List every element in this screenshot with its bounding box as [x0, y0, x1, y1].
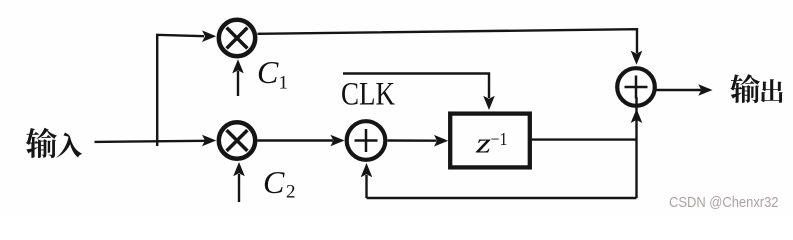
- svg-text:2: 2: [286, 182, 296, 203]
- svg-text:1: 1: [279, 73, 289, 94]
- svg-text:CLK: CLK: [341, 77, 395, 113]
- svg-text:C: C: [263, 164, 285, 200]
- svg-text:z: z: [475, 128, 491, 160]
- svg-text:−1: −1: [491, 129, 508, 149]
- svg-text:CSDN @Chenxr32: CSDN @Chenxr32: [669, 194, 779, 211]
- svg-text:C: C: [257, 54, 279, 90]
